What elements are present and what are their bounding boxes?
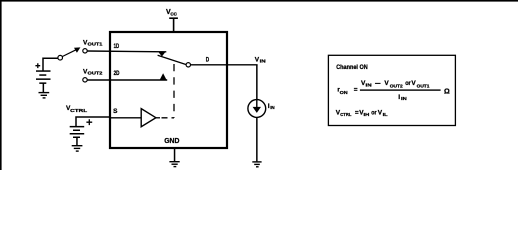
frame top border	[0, 0, 518, 2]
svg-text:=: =	[355, 109, 359, 116]
battery B2 plus sign	[86, 119, 92, 125]
dashed control line vertical	[173, 64, 175, 118]
svg-text:I: I	[398, 94, 400, 101]
VIN label	[255, 57, 266, 65]
ground below current source	[252, 161, 261, 167]
svg-text:CC: CC	[170, 12, 177, 18]
svg-text:IN: IN	[366, 82, 373, 88]
1D contact arrowhead (down)	[158, 52, 166, 57]
svg-text:=: =	[354, 86, 358, 93]
formula fraction bar	[360, 89, 441, 90]
wire VIN node down to current source	[256, 65, 258, 100]
formula: VCTRL = VIH or VIL	[336, 109, 388, 118]
wire current source to ground	[256, 117, 258, 161]
current source IIN circle	[248, 100, 266, 118]
IIN label	[268, 103, 275, 111]
formula denominator: IIN	[398, 94, 407, 102]
external switch blade	[62, 50, 76, 57]
svg-text:or: or	[405, 80, 411, 87]
svg-text:IH: IH	[364, 112, 370, 118]
svg-text:CTRL: CTRL	[70, 108, 87, 114]
battery B2 plates	[70, 126, 85, 138]
wire D to VIN node	[191, 64, 258, 66]
current source arrow shaft	[256, 100, 257, 108]
battery B2 negative lead	[76, 138, 78, 146]
D pole circle	[186, 63, 190, 67]
svg-text:or: or	[371, 110, 377, 117]
battery B1 negative lead	[43, 84, 45, 93]
svg-text:ON: ON	[340, 90, 349, 96]
svg-text:−: −	[375, 80, 381, 87]
ground below battery B2	[72, 145, 83, 152]
svg-text:OUT2: OUT2	[390, 84, 403, 90]
external switch pole circle	[58, 55, 63, 60]
wire GND pin down	[174, 148, 176, 162]
battery B1 plus sign	[35, 63, 40, 68]
wire S pin to buffer	[110, 117, 141, 119]
switch blade to D pole	[158, 55, 187, 64]
svg-text:OUT1: OUT1	[417, 84, 430, 90]
dashed control line horizontal	[160, 117, 174, 119]
battery B1 plates	[36, 70, 51, 84]
frame left border	[0, 0, 2, 170]
svg-text:GND: GND	[164, 136, 179, 145]
svg-text:V: V	[384, 80, 389, 87]
buffer output stub	[156, 117, 160, 119]
ground symbol below GND	[169, 161, 179, 167]
battery B1 positive lead wire	[43, 58, 58, 71]
VCC label	[166, 9, 177, 18]
svg-text:1D: 1D	[114, 43, 120, 50]
svg-text:D: D	[206, 57, 210, 64]
svg-text:CTRL: CTRL	[340, 112, 351, 118]
ground below battery B1	[39, 92, 50, 99]
svg-text:IN: IN	[401, 96, 407, 102]
2D contact arrowhead (up)	[159, 73, 166, 80]
wire VCC to box	[173, 18, 175, 33]
svg-text:IN: IN	[270, 105, 275, 111]
VCC power bar	[169, 17, 178, 19]
wire VOUT1 to 1D contact	[87, 50, 166, 53]
svg-text:S: S	[113, 108, 117, 115]
svg-text:IL: IL	[383, 112, 388, 118]
svg-text:2D: 2D	[114, 70, 120, 77]
formula box	[328, 55, 455, 125]
VOUT2 label	[83, 68, 103, 76]
VOUT1 terminal circle	[83, 49, 87, 53]
svg-text:Channel ON: Channel ON	[336, 64, 368, 71]
external switch arrowhead toward VOUT1	[74, 47, 80, 52]
current source arrowhead (down)	[253, 107, 261, 113]
svg-text:OUT2: OUT2	[88, 71, 103, 77]
svg-text:IN: IN	[260, 59, 267, 65]
IC box U1	[110, 32, 227, 148]
VOUT1 label	[83, 39, 103, 47]
VCTRL label	[66, 105, 87, 114]
VOUT2 terminal circle	[83, 78, 87, 82]
formula numerator: VIN - VOUT2 or VOUT1	[361, 80, 430, 90]
wire VCTRL battery to S pin	[76, 117, 110, 127]
formula: rON =	[337, 86, 357, 96]
svg-text:Ω: Ω	[444, 86, 450, 95]
wire VOUT2 to 2D contact	[87, 79, 167, 81]
buffer driver triangle	[141, 109, 156, 127]
svg-text:OUT1: OUT1	[88, 42, 103, 48]
